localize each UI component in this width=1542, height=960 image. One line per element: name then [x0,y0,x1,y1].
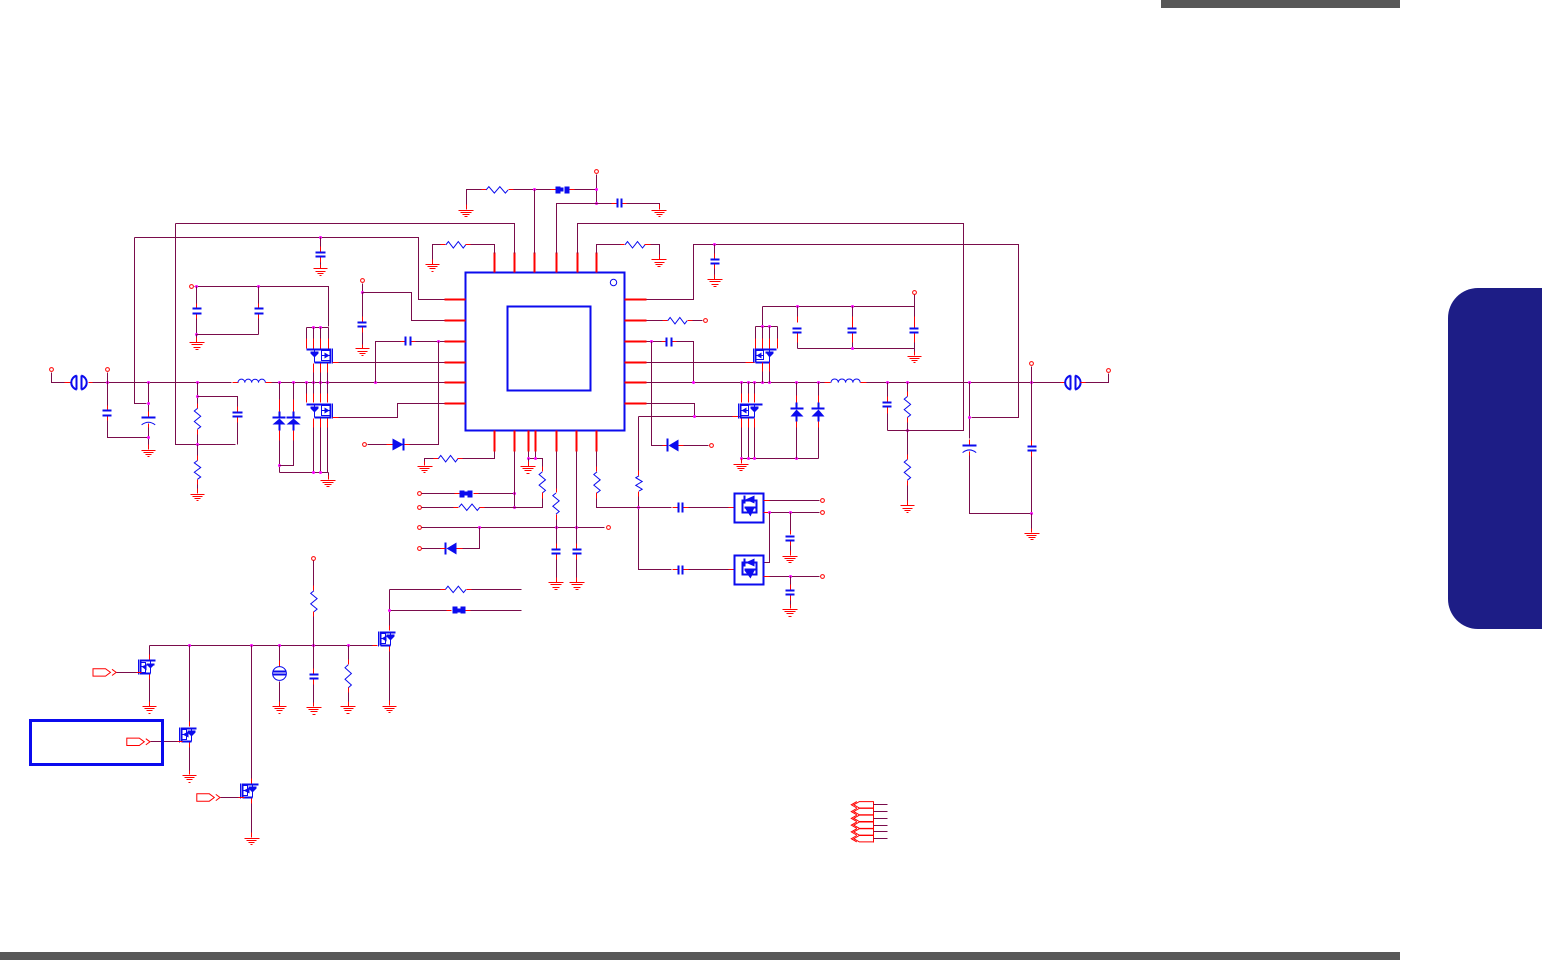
wire y610.2 line [390,610,449,612]
mosfet Q8 [241,784,259,799]
ground below R3 [652,255,667,267]
wire R12 to R13 riser [485,499,543,508]
wire terminal 2 down to bus [107,373,109,383]
wire D1 anode to terminal [684,445,709,447]
wire R13 top to pin bar [529,459,543,467]
wire cap C16 branch top [198,397,238,407]
ground below Q7 [183,771,197,783]
wire D6 bottom-right pin line [764,576,820,578]
schottky diode D3 [812,403,825,422]
terminal circle (D8) [418,547,422,551]
input rail terminal [913,291,917,295]
wire C9 drop [790,577,792,585]
wire diode D2 column [796,383,798,396]
ground below C13 [1025,529,1040,540]
terminal circle (R16 top) [312,557,316,561]
wire bottom link to ground [1031,514,1033,531]
wire Q5 drain vertical [389,590,391,626]
schottky diode D4b [287,412,301,431]
wire x638 vertical lower [639,497,672,570]
wire R9 column from bus [197,383,199,404]
wire D5 to D6 vertical [765,513,770,563]
wire R9 to node [197,435,199,445]
mosfet Q1 (high side right) [754,349,777,363]
wire Q2 source stubs to bus [314,364,328,383]
wire C3 to ground [320,263,322,267]
terminal circle (R12 line) [418,506,422,510]
wire Q3 source stubs to ground bar [742,419,755,459]
resistor R14 (IC bottom pin4) [553,489,559,520]
ferrite barrier FB2 [1065,376,1080,390]
wire R16 column [313,561,315,586]
wire battery column top [279,646,281,661]
wire output bottom bar y430 [888,430,964,432]
ground below C9 [783,605,798,617]
wire IC right pin4 to Q1 gate [647,362,746,364]
terminal circle (pin2 net) [361,279,365,283]
wire C23 to ground [313,685,315,705]
resistor R7 (output upper) [904,392,910,423]
resistor R3 (IC top pin6) [621,242,651,248]
wire C6 to pack D6 [689,569,729,571]
wire R17 to ground [348,693,350,705]
wire y202.7 left to pin4-top vertical [557,204,597,254]
ground below Q6 [143,702,157,714]
diode D7 [393,439,404,451]
wire C19 to ground [362,333,364,347]
ground below C15 [142,445,156,457]
wire R14 to y527 junction [556,520,558,528]
wire R10 to ground [197,485,199,492]
mosfet Q2 (high side left) [307,349,333,364]
capacitor C17 [193,304,202,319]
capacitor C5 (bootstrap) [662,338,677,347]
wire Q2 gate to IC left pin4 [339,362,445,364]
wire diode D4a column [279,383,281,400]
wire Q1 drain stubs [756,327,778,349]
bottom gray footer bar [0,952,1400,960]
output sense terminal [1030,362,1034,366]
wire R7 to bar [907,423,909,431]
resistor R9 [194,404,200,435]
wire Q7 drain vertical [189,646,191,722]
navy side tab [1448,288,1542,629]
cap bank plumbing [793,329,919,333]
resistor R1 (fuse line) [482,187,514,193]
terminal circle (fuse line 2) [418,492,422,496]
IC U1 body [466,273,625,431]
ground below Q4 [321,476,336,487]
fuse F2 [455,491,479,498]
inductor L1 [825,379,867,383]
wire y416.4 to Q3 gate [639,416,733,418]
top gray header bar [1161,0,1400,8]
wire rail y644.7 [150,645,373,647]
resistor R4 (IC right pin2) [663,318,693,324]
capacitor C4 (net-C) [711,254,720,269]
wire bus from L1 to barrier [867,382,1061,384]
resistor R8 (output lower) [904,455,910,486]
wire IC bottom pin4 down [556,452,558,489]
capacitor C11 plates [883,403,892,407]
mosfet Q5 [379,632,396,647]
wire ground stub R2 left [433,245,441,263]
capacitor C10 stubs [798,317,915,343]
wire D3 to ground bar corner [818,428,820,459]
wire C2 to ground [627,204,660,207]
wire to fuse F2 [422,493,456,495]
schottky diode D2 [791,403,804,422]
off-page terminal (pin2 net) [704,319,708,323]
wire IC bottom pin5 vertical [576,452,578,544]
terminal (D6 pin b) [821,575,825,579]
wire node A vertical [596,175,598,204]
block outline (RTC battery box) [31,721,163,765]
capacitor C9 [786,585,795,601]
wire input rail y305.9 [763,306,915,308]
capacitor C22 [573,544,582,560]
wire bottom bar ground stub [196,335,198,341]
ferrite barrier FB1 [71,376,86,390]
wire pin2 net jog to IC left pin2 [362,284,364,293]
fuse F1 [551,187,575,194]
wire Q4 source stubs down [314,419,328,473]
wire barrier to output terminal [1086,374,1109,383]
wire y588.9 line [390,589,441,591]
wire Q2 drain jog bar [307,327,329,329]
resistor R10 [194,456,200,485]
ground below R10 [191,489,205,501]
wire R17 column [348,646,350,660]
wire VIN fuse line left segment [467,190,487,207]
wire diode D4b column [293,383,295,400]
wire C7 to pack D5 [689,507,729,509]
ground below R17 [341,702,356,714]
wire IC pin4b down to bar [535,452,537,459]
wire arrow to Q6 gate [117,672,137,674]
wire IC pin3b down to bar [528,452,530,459]
wire x437.5 vertical to diode D7 [410,342,439,445]
capacitor C7 (to diode pack D5) [673,503,689,513]
wire D5 bottom-right pin line [764,512,820,514]
wire C8 drop [790,513,792,531]
wire Q6 source to ground [149,680,151,705]
fuse F3 [447,607,471,614]
capacitor C3 (net-B) [316,247,326,263]
mosfet Q7 [180,728,197,743]
wire D4a to ground bar [279,441,281,473]
dual diode pack D5 [735,494,764,523]
resistor R15 [441,586,472,592]
wire output cap column x968.9 [969,383,971,439]
wire D4b jog to D4a column [280,441,294,466]
IC U1 top pin stubs [495,253,597,273]
resistor R6 (IC bottom pin6) [594,467,600,499]
wire ground stub [741,459,743,462]
inductor L2 (input) [233,379,272,382]
wire arrow to Q8 gate [221,797,239,799]
input terminal circle 1 [50,368,54,372]
wire R6 to diode pack D5 line [597,499,672,508]
wire battery to ground [279,682,281,705]
capacitor C6 (to diode pack D6) [673,566,689,575]
wire cap C17 column [196,287,198,304]
junction output R bottom [906,429,909,432]
wire pin3-top vertical [534,190,536,254]
ground below Y1 [273,702,287,714]
wire y202.7 right to cap C2 [597,203,612,205]
ground below C17 [190,338,205,350]
wire polarized cap C15 column [148,383,150,412]
wire output divider R7 [907,383,909,392]
ground below C19 [356,345,370,356]
wire R4 to terminal [693,320,703,322]
wire junction to C21 [556,528,558,544]
resistor R17 [345,660,351,693]
wire D2 to ground bar [796,428,798,459]
ground below fuse-line resistor [459,205,474,217]
mosfet Q4 (low side left) [307,404,333,419]
schottky diode D4a [273,412,286,431]
wire R3 to ground [651,245,660,258]
wire bus to C20 riser [376,342,401,383]
output terminal circle [1107,369,1111,373]
wire switch node bus right [647,382,825,384]
wire caps bottom bar y333.6 [197,334,259,336]
wire R11 to ground [425,459,434,464]
ground below C4 [708,275,723,287]
wire IC right pin3 [647,341,662,343]
wire Q8 source to ground [251,804,253,836]
wire fuse to node A [575,189,597,191]
wire IC right pin2 to R4 [647,320,663,322]
wire C21 to ground [556,560,558,581]
wire C4 to ground [714,269,716,278]
terminal circle (D7 anode) [363,443,367,447]
wire net-A right segment from IC top pin5 [578,224,964,431]
ground below C23 [307,703,322,715]
signal arrow (Q8 gate) [197,794,220,801]
ground below IC pin3b [521,462,536,474]
wire x638 vertical upper [638,417,640,471]
capacitor C14 (input) [103,406,112,421]
capacitor C8 [786,531,795,546]
wire pin3b ground stub [528,459,530,465]
wire pin3 vertical to diode D1 [652,342,663,446]
diode D8 [446,543,457,555]
off-page terminal (fuse node) [595,170,599,174]
connector J1 pin arrows [851,802,887,843]
ground right of C2 [652,205,667,217]
wire R15 to end [472,589,522,591]
ground below C3 [314,265,328,276]
wire ground stub left bar [328,473,330,478]
wire y527.3 line [422,527,605,529]
wire C11 to bottom bar [887,414,889,431]
signal arrow (Q7 gate) [127,738,150,745]
crystal Y1 [273,667,287,681]
wire input cap C14 column [107,383,109,406]
IC U1 bottom pin stubs [495,431,597,452]
input terminal circle 2 [106,368,110,372]
ground left of R11 [418,462,433,473]
wire Q4 gate jog to IC left pin6 [339,404,445,418]
wire C8 to ground [790,546,792,554]
resistor R5 (x638) [636,471,642,497]
wire output cap C11 column [887,383,889,397]
capacitor C18 [255,304,264,319]
wire Q4 drain stubs from bus [307,383,328,403]
capacitor C16 (parallel R9) [233,407,243,423]
wire C5 down to bus [677,342,694,383]
wire Q1 source stubs to bus [763,363,770,383]
wire R8 chain to ground [907,431,909,455]
ground below C21 [549,578,564,590]
wire cap bank column 1 [797,307,799,317]
wire bottom bar ground stub [914,349,916,354]
junction on fuse line at pin3 vertical [533,188,536,191]
wire FET drain jog bar right [756,326,778,328]
wire rail to C23 [313,646,315,669]
terminal (D5 pin b) [821,511,825,515]
wire C9 to ground [790,601,792,607]
wire main bus left half segment 2 [272,382,445,384]
mosfet Q3 (low side right) [739,404,763,419]
wire C20 to IC left pin3 [416,341,445,343]
wire C22 to ground [576,560,578,581]
wire main bus left half segment 1 [93,382,232,384]
resistor R2 (IC top pin1) [441,242,471,248]
wire D8 drop [463,528,480,549]
resistor R13 [539,467,545,499]
ground below R8 [901,501,915,513]
wire to R12 [422,507,454,509]
terminal circle right (y527) [607,526,611,530]
capacitor C23 [310,669,319,685]
wire output cap column x1031.4 [1031,367,1033,441]
wire IC top pin6 up [597,245,621,254]
wire F2 to pin2 vertical [479,493,515,495]
wire D8 to terminal [422,548,441,550]
wire Q7 source to ground [189,748,191,773]
wire C15 bottom to ground [148,428,150,448]
wire rail down to FET jog [762,307,764,327]
signal arrow (Q6 gate) [93,669,116,676]
wire cap C18 column [258,287,260,304]
ground below FET Q3 [734,459,749,471]
wire cap bank bottom bar [798,348,915,350]
polarized capacitor C15 (input) [142,412,156,428]
wire R10 chain to ground [197,445,199,456]
wire R2 to IC top pin1 [471,245,495,254]
resistor R11 (IC bottom pin1) [434,456,463,462]
wire D7 anode to terminal [368,444,387,446]
ground below C22 [570,578,585,590]
wire Q8 drain vertical [251,646,253,779]
dual diode pack D6 [735,556,764,585]
wire R8 to ground [907,486,909,504]
resistor R16 [311,586,317,617]
wire F3 to end [471,610,522,612]
wire Q6 drain riser [149,646,151,655]
wire C14 to bottom jog [108,421,149,438]
IC U1 left pin stubs [445,300,466,404]
wire Q5 source to ground [389,652,391,704]
wire C12 down to bottom link [970,456,1032,514]
wire Q2 drain stubs [307,328,329,349]
wire net-A left segment to IC top pin2 [176,224,515,254]
wire left ground bar y472.4 [280,472,329,474]
capacitor C19 [358,317,367,333]
IC U1 pin-1 index circle [610,279,616,285]
wire IC bottom pin1 down-left [463,452,495,459]
wire between R1 and junction [514,189,552,191]
wire R16 to rail [313,617,315,646]
wire D5 top-right pin to terminal [770,500,820,502]
wire diode D3 column [818,383,820,396]
ground below C8 [783,551,798,563]
ground left of R2 [426,260,440,272]
wire arrow to Q7 gate [151,741,178,743]
wire C13 down [1031,457,1033,514]
wire long vertical x134 jog [135,238,147,404]
capacitor C13 (output) [1028,441,1037,457]
off-page terminal (D1 anode) [710,444,714,448]
wire C17 down [196,319,198,335]
IC U1 right pin stubs [625,300,647,404]
terminal circle (left rail) [190,285,194,289]
wire Q3 drain stubs from bus [742,383,755,403]
wire cap C3 drop [320,238,322,247]
wire long vertical x175 [176,224,236,445]
wire ground bar y457.9 [742,458,819,460]
wire input terminal down to bus [52,373,65,383]
wire left rail y285.6 [195,287,329,327]
polarized capacitor C12 (output) [963,440,977,456]
wire cap columns dark parts [798,307,915,349]
wire cap C19 column [362,293,364,317]
terminal circle (line y527) [418,526,422,530]
wire cap C4 drop [714,245,716,254]
ground below Q8 [245,833,260,845]
ground below cap bank [908,352,922,363]
capacitor C20 (series) [401,337,416,346]
capacitor C2 (fuse node) [612,199,627,208]
wire IC right pin6 jog [647,404,695,417]
resistor R12 [454,504,485,510]
wire IC bottom pin2 vertical [514,452,516,508]
diode D1 [668,439,679,452]
wire net-B top to IC left pin1 [135,238,445,300]
wire rail up to terminal circle [914,295,916,307]
wire C16 branch bottom [237,423,239,445]
ground below Q5 [383,701,397,713]
wire jog right [363,293,445,321]
capacitor C21 [552,544,561,560]
mosfet Q6 [139,660,156,675]
terminal (D5 pin a) [821,499,825,503]
wire net-C from IC right pin1 [647,245,1019,418]
wire IC bottom pin6 down [596,452,598,467]
wire C18 down [258,319,260,335]
